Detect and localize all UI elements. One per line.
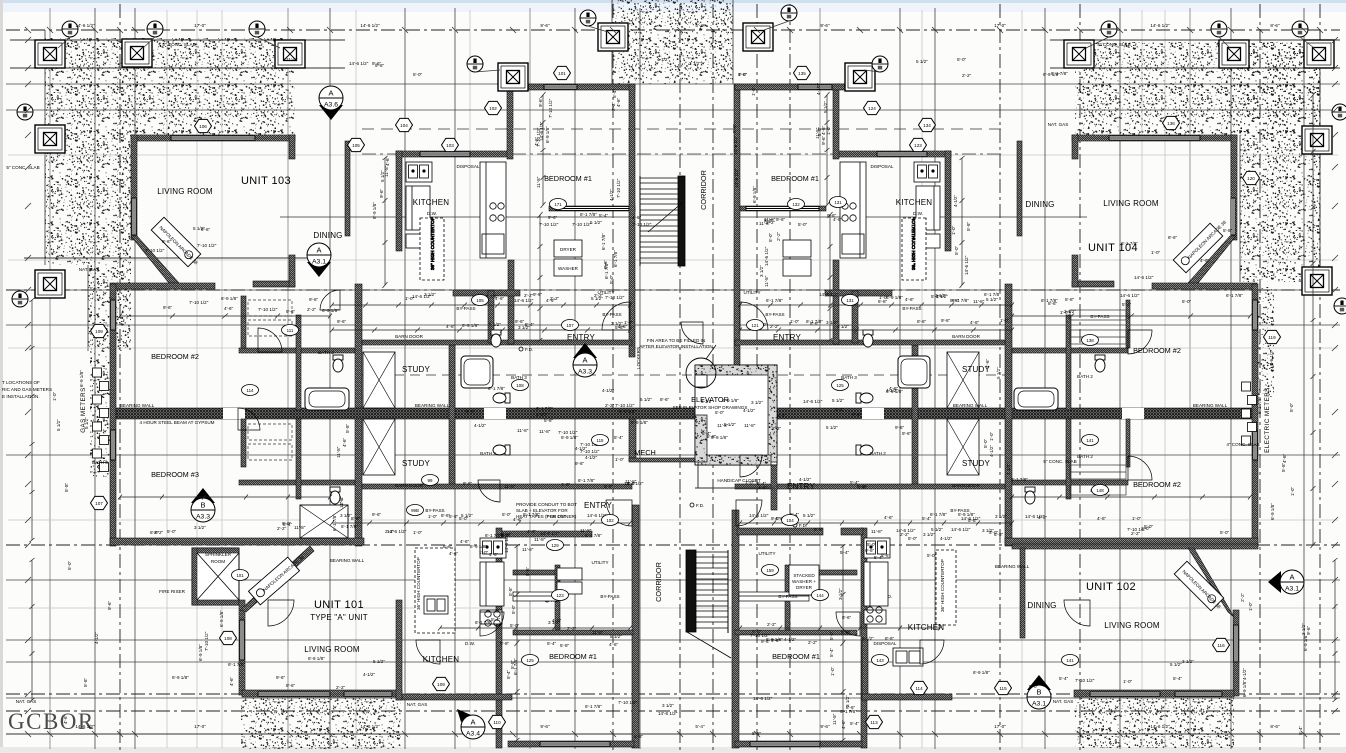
svg-text:9'-6": 9'-6" (771, 638, 781, 643)
corridor east wall lower (732, 510, 739, 748)
unit104 left wall lower (1072, 255, 1078, 287)
shower left-wing bath3 (300, 505, 348, 538)
svg-text:14'-6 1/2": 14'-6 1/2" (349, 61, 369, 66)
cr study row bottom partition (735, 484, 1005, 489)
bcr east wall (861, 528, 867, 748)
section marker A/A3.6 (319, 86, 343, 120)
svg-text:5'-0": 5'-0" (954, 245, 959, 255)
svg-text:4-1/2": 4-1/2" (474, 423, 486, 428)
svg-text:148: 148 (1096, 488, 1104, 493)
svg-text:5'-4": 5'-4" (922, 516, 932, 521)
svg-text:4'-6": 4'-6" (224, 306, 234, 311)
svg-text:5'-4": 5'-4" (757, 481, 767, 486)
cl entry wall (453, 290, 520, 296)
bcl utility side wall (555, 565, 560, 630)
svg-text:5'-0": 5'-0" (768, 232, 773, 242)
svg-text:3 1/2": 3 1/2" (424, 292, 436, 297)
svg-text:4'-6": 4'-6" (513, 517, 523, 522)
bcl bedroom top partition (513, 630, 633, 635)
svg-text:9'-6": 9'-6" (1306, 625, 1311, 635)
svg-text:14'-6 1/2": 14'-6 1/2" (1150, 724, 1170, 729)
svg-text:101: 101 (558, 71, 566, 76)
svg-text:17'-0": 17'-0" (994, 724, 1006, 729)
svg-text:2'-2": 2'-2" (154, 530, 164, 535)
svg-text:14'-6 1/2": 14'-6 1/2" (658, 711, 678, 716)
svg-text:5" CONC. SLAB: 5" CONC. SLAB (6, 165, 39, 170)
svg-text:9'-6": 9'-6" (309, 297, 319, 302)
svg-text:5'-0": 5'-0" (957, 57, 967, 62)
svg-text:8'-6": 8'-6" (917, 319, 927, 324)
svg-text:UTILITY: UTILITY (743, 290, 760, 295)
svg-text:BEARING WALL: BEARING WALL (120, 403, 155, 408)
right wing window b3 (1253, 430, 1257, 460)
cl kitchen window (420, 152, 470, 156)
svg-text:6'-9 1/8": 6'-9 1/8" (462, 323, 479, 328)
svg-text:4'-6": 4'-6" (884, 515, 894, 520)
svg-text:F.D.: F.D. (799, 523, 807, 528)
stipple region borders (45, 0, 1320, 351)
cl utility closet wall (488, 291, 494, 343)
svg-text:4-1/2": 4-1/2" (363, 672, 375, 677)
svg-text:5'-8": 5'-8" (510, 659, 515, 669)
svg-text:WASHER +: WASHER + (792, 579, 816, 584)
svg-text:11'-8": 11'-8" (871, 529, 883, 534)
unit103 right wall lower (289, 255, 295, 287)
svg-text:14'-6 1/2": 14'-6 1/2" (1269, 349, 1274, 369)
svg-text:2'-2": 2'-2" (336, 685, 346, 690)
svg-text:9'-6": 9'-6" (950, 298, 960, 303)
svg-text:11'-8": 11'-8" (294, 525, 306, 530)
svg-text:TYPE "A" UNIT: TYPE "A" UNIT (310, 613, 368, 622)
svg-text:5 1/2": 5 1/2" (803, 513, 815, 518)
svg-text:1'-0": 1'-0" (1132, 516, 1142, 521)
svg-text:14'-6 1/2": 14'-6 1/2" (734, 168, 739, 188)
elevator shaft left wall lower (695, 415, 707, 462)
svg-text:103: 103 (446, 143, 454, 148)
unit101 west window (240, 620, 244, 660)
unit102 top wall (1012, 544, 1258, 549)
concrete slab stipple regions (45, 38, 295, 135)
svg-text:4'-6": 4'-6" (449, 551, 459, 556)
svg-text:6'-1 7/8": 6'-1 7/8" (585, 533, 602, 538)
svg-text:1'-0": 1'-0" (615, 457, 625, 462)
svg-text:8'-6": 8'-6" (1168, 235, 1178, 240)
svg-text:7'-10 1/2": 7'-10 1/2" (539, 222, 559, 227)
svg-text:14'-6 1/2": 14'-6 1/2" (504, 533, 509, 553)
svg-text:6'-1 7/8": 6'-1 7/8" (475, 620, 492, 625)
svg-text:UNIT 103: UNIT 103 (241, 175, 291, 187)
svg-text:3 1/2": 3 1/2" (548, 620, 560, 625)
svg-text:1'-0": 1'-0" (561, 482, 571, 487)
kitchen unit102 (bottom-right) (864, 538, 890, 624)
svg-text:11'-8": 11'-8" (973, 299, 985, 304)
elevator callout circle (686, 358, 716, 388)
section marker B/A3.3 (191, 488, 215, 522)
svg-text:36" HIGH COUNTERTOP: 36" HIGH COUNTERTOP (416, 557, 421, 610)
corridor west wall lower (632, 505, 639, 748)
bcl west wall (496, 528, 502, 748)
unit103 top window (171, 136, 255, 140)
svg-text:2'-2": 2'-2" (550, 296, 560, 301)
svg-text:132: 132 (792, 202, 800, 207)
svg-text:DRYER: DRYER (560, 247, 577, 252)
svg-text:AFTER ELEVATOR INSTALLATION: AFTER ELEVATOR INSTALLATION (639, 344, 712, 349)
svg-text:9'-6": 9'-6" (820, 23, 830, 28)
kitchen unit cl (top-left-center) (406, 162, 506, 280)
svg-text:108: 108 (516, 383, 524, 388)
svg-text:1'-0": 1'-0" (1060, 310, 1070, 315)
svg-text:5'-0": 5'-0" (1182, 299, 1192, 304)
unit102 bottom wall (1074, 690, 1234, 697)
svg-text:11'-8": 11'-8" (539, 429, 551, 434)
svg-text:BY-PASS: BY-PASS (1090, 314, 1109, 319)
svg-text:14'-6 1/2": 14'-6 1/2" (1025, 514, 1045, 519)
svg-text:D.W.: D.W. (465, 641, 475, 646)
svg-text:NAT. GAS: NAT. GAS (1053, 699, 1074, 704)
unit104 right wall (1231, 135, 1237, 240)
svg-text:7'-10 1/2": 7'-10 1/2" (558, 430, 578, 435)
svg-text:NAT. GAS: NAT. GAS (1048, 122, 1069, 127)
svg-text:4'-6": 4'-6" (527, 529, 537, 534)
svg-text:1'-0": 1'-0" (1000, 318, 1010, 323)
svg-text:5'-8": 5'-8" (634, 734, 644, 739)
corridor east wall upper (734, 84, 740, 365)
svg-text:BEARING WALL: BEARING WALL (995, 564, 1030, 569)
svg-text:2'-2": 2'-2" (611, 101, 616, 111)
dining east partition (345, 141, 350, 236)
svg-text:4-1/2": 4-1/2" (953, 195, 958, 207)
svg-text:5'-4": 5'-4" (614, 435, 624, 440)
svg-text:14'-6 1/2": 14'-6 1/2" (387, 529, 407, 534)
svg-text:2'-2": 2'-2" (339, 495, 344, 505)
closet X left-center lower (363, 419, 395, 475)
svg-text:STUDY: STUDY (962, 459, 991, 468)
svg-text:9'-6": 9'-6" (852, 412, 862, 417)
bcl kitchen bottom wall (396, 694, 512, 700)
svg-text:SPRINKLER: SPRINKLER (205, 552, 232, 557)
svg-text:171: 171 (554, 202, 562, 207)
svg-text:A: A (316, 246, 321, 255)
svg-text:5 1/2": 5 1/2" (701, 399, 713, 404)
bathtub right wing (1014, 388, 1058, 410)
svg-text:11'-8": 11'-8" (517, 428, 529, 433)
svg-text:121: 121 (751, 323, 759, 328)
washer/dryer top-right-center (783, 240, 811, 276)
unit101 bottom window2 (344, 692, 392, 696)
bcr bedroom top partition (735, 630, 857, 635)
svg-text:8'-6": 8'-6" (525, 566, 530, 576)
svg-text:LIVING ROOM: LIVING ROOM (1103, 199, 1159, 208)
svg-text:SEE ELEVATOR SHOP DRAWINGS: SEE ELEVATOR SHOP DRAWINGS (673, 405, 748, 410)
svg-text:5'-0": 5'-0" (798, 222, 808, 227)
unit102 bottom window1 (1090, 692, 1160, 696)
unit102 bottom window2 (1175, 692, 1222, 696)
svg-text:BEARING WALL: BEARING WALL (953, 403, 988, 408)
bottom gray strip (0, 747, 1346, 753)
svg-text:143: 143 (876, 658, 884, 663)
bath2 west partition upper (296, 315, 301, 410)
svg-text:14'-6 1/2": 14'-6 1/2" (764, 246, 769, 266)
svg-text:14'-6 1/2": 14'-6 1/2" (514, 298, 534, 303)
svg-text:8'-6": 8'-6" (842, 615, 852, 620)
svg-text:DISPOSAL: DISPOSAL (874, 641, 897, 646)
svg-text:CORRIDOR: CORRIDOR (654, 562, 663, 602)
svg-text:BY-PASS: BY-PASS (902, 306, 921, 311)
shelf rod closet bcl (513, 592, 558, 601)
svg-text:2'-2": 2'-2" (1131, 531, 1141, 536)
svg-text:3 1/2": 3 1/2" (194, 525, 206, 530)
closet X left-center (363, 352, 395, 408)
elevator shaft top wall (695, 365, 777, 375)
cr entry wall (825, 290, 892, 296)
svg-text:11'-8": 11'-8" (536, 176, 541, 188)
svg-text:5'-8": 5'-8" (604, 484, 614, 489)
svg-text:LIVING ROOM: LIVING ROOM (157, 187, 213, 196)
svg-text:141: 141 (1086, 438, 1094, 443)
svg-text:9'-6": 9'-6" (941, 318, 951, 323)
napoleon arcade unit102 (1174, 561, 1227, 614)
svg-text:9'-6": 9'-6" (515, 319, 525, 324)
upper stair (640, 176, 685, 266)
svg-text:6'-9 1/8": 6'-9 1/8" (219, 610, 224, 627)
svg-text:5'-0": 5'-0" (502, 512, 512, 517)
svg-text:131: 131 (846, 298, 854, 303)
svg-text:17'-0": 17'-0" (194, 724, 206, 729)
svg-text:7'-10 1/2": 7'-10 1/2" (197, 243, 217, 248)
svg-text:3 1/2": 3 1/2" (826, 320, 838, 325)
svg-text:1'-0": 1'-0" (858, 485, 868, 490)
svg-text:ENTRY: ENTRY (567, 333, 595, 342)
svg-text:A3.3: A3.3 (578, 369, 592, 376)
cr step wall (833, 84, 839, 159)
svg-text:DRYER: DRYER (796, 585, 813, 590)
svg-text:5'-8": 5'-8" (968, 518, 978, 523)
svg-text:3 1/2": 3 1/2" (518, 325, 530, 330)
svg-text:5'-8": 5'-8" (83, 677, 88, 687)
svg-text:STUDY: STUDY (402, 365, 431, 374)
svg-text:6'-1 7/8": 6'-1 7/8" (578, 478, 595, 483)
svg-text:5 1/2": 5 1/2" (489, 322, 501, 327)
svg-text:ENTRY: ENTRY (773, 333, 801, 342)
svg-text:4'-6": 4'-6" (385, 156, 390, 166)
cl step wall (507, 84, 513, 159)
svg-text:4'-6": 4'-6" (905, 297, 915, 302)
svg-text:14'-6 1/2": 14'-6 1/2" (540, 531, 560, 536)
svg-text:14'-6 1/2": 14'-6 1/2" (749, 513, 769, 518)
svg-text:WASHER: WASHER (558, 266, 579, 271)
unit104 right window (1231, 198, 1235, 235)
oval door tags (562, 320, 579, 331)
svg-text:5 1/2": 5 1/2" (823, 101, 828, 113)
svg-text:8'-6": 8'-6" (1270, 23, 1280, 28)
svg-text:144: 144 (816, 593, 824, 598)
svg-text:9'-6": 9'-6" (603, 259, 608, 269)
svg-text:1'-0": 1'-0" (1151, 250, 1161, 255)
svg-text:5 1/2": 5 1/2" (916, 59, 928, 64)
svg-text:6'-1 7/8": 6'-1 7/8" (1041, 298, 1058, 303)
svg-text:5'-0": 5'-0" (413, 72, 423, 77)
svg-text:F.D.: F.D. (696, 503, 704, 508)
svg-text:FIN AREA TO BE FILLED IN: FIN AREA TO BE FILLED IN (647, 338, 705, 343)
bcl kitchen west wall (396, 600, 402, 700)
wardrobe closets left wing (248, 300, 292, 460)
svg-text:3 1/2": 3 1/2" (340, 513, 352, 518)
unit102 range circles (867, 607, 882, 622)
svg-text:9'-6": 9'-6" (372, 61, 382, 66)
left wing east bearing wall (355, 284, 362, 546)
svg-text:5'-4": 5'-4" (777, 413, 787, 418)
svg-text:8'-6": 8'-6" (885, 636, 895, 641)
svg-text:3 1/2": 3 1/2" (611, 321, 623, 326)
r-bedroom2 west wall upper (1126, 300, 1130, 348)
svg-text:11'-8": 11'-8" (832, 713, 837, 725)
unit102 diagonal arcade wall (1188, 548, 1234, 617)
svg-text:36" HIGH COUNTERTOP: 36" HIGH COUNTERTOP (940, 559, 945, 612)
cr bypass doors (746, 207, 819, 211)
svg-text:BEDROOM #1: BEDROOM #1 (549, 652, 597, 661)
elevator fill-in notch (695, 375, 707, 387)
right wing west bearing wall (1005, 284, 1012, 546)
svg-text:5 1/2": 5 1/2" (640, 397, 652, 402)
svg-text:5'-0": 5'-0" (927, 553, 937, 558)
svg-text:6'-1 7/8": 6'-1 7/8" (806, 319, 823, 324)
door swing arcs (238, 290, 1152, 664)
svg-text:14'-6 1/2": 14'-6 1/2" (1150, 23, 1170, 28)
left wing window b3 (111, 430, 115, 460)
svg-text:3 1/2": 3 1/2" (1182, 659, 1194, 664)
svg-text:114: 114 (915, 686, 923, 691)
section marker B/A3.1 (1027, 675, 1051, 709)
svg-text:6'-9 1/8": 6'-9 1/8" (886, 295, 903, 300)
svg-text:4-1/2": 4-1/2" (799, 477, 811, 482)
svg-text:7'-10 1/2": 7'-10 1/2" (605, 295, 625, 300)
svg-text:BARN DOOR: BARN DOOR (952, 483, 981, 488)
unit102 kitchen island (936, 550, 956, 625)
svg-text:5'-0": 5'-0" (510, 623, 520, 628)
svg-text:5'-0": 5'-0" (867, 542, 877, 547)
svg-text:123: 123 (914, 143, 922, 148)
handicap closet (695, 465, 775, 488)
svg-text:9'-6": 9'-6" (902, 431, 912, 436)
svg-text:BATH 2: BATH 2 (1077, 454, 1093, 459)
svg-text:11'-8": 11'-8" (744, 423, 756, 428)
svg-text:14'-6 1/2": 14'-6 1/2" (75, 724, 95, 729)
svg-text:9'-6": 9'-6" (895, 425, 905, 430)
svg-text:7'-10 1/2": 7'-10 1/2" (615, 403, 635, 408)
svg-text:8'-6": 8'-6" (660, 397, 670, 402)
svg-text:6'-9 1/8": 6'-9 1/8" (545, 126, 550, 143)
svg-text:A3.4: A3.4 (466, 731, 480, 738)
closet X right-center lower (947, 419, 979, 475)
unit103 top wall (131, 135, 295, 141)
corridor west wall upper (629, 84, 635, 357)
washer/dryer top-left-center (554, 240, 582, 276)
electric meters (1242, 382, 1257, 445)
svg-text:115: 115 (597, 438, 605, 443)
svg-text:8'-6": 8'-6" (846, 705, 856, 710)
svg-text:NAT. GAS: NAT. GAS (16, 699, 37, 704)
svg-text:4 HOUR STEEL BEAM AT GYPSUM: 4 HOUR STEEL BEAM AT GYPSUM (140, 420, 215, 425)
svg-text:CORRIDOR: CORRIDOR (699, 170, 708, 210)
svg-text:A: A (582, 356, 587, 365)
svg-text:116: 116 (1217, 643, 1225, 648)
svg-text:1'-0": 1'-0" (1248, 601, 1253, 611)
svg-text:1'-0": 1'-0" (1123, 679, 1133, 684)
svg-text:5 1/2": 5 1/2" (380, 170, 385, 182)
svg-text:2'-2": 2'-2" (772, 426, 782, 431)
svg-text:119: 119 (1268, 335, 1276, 340)
svg-text:BY-PASS: BY-PASS (602, 312, 621, 317)
elevator shaft (695, 365, 777, 465)
svg-text:4-1/2": 4-1/2" (816, 83, 821, 95)
sprinkler west wall (192, 548, 197, 605)
svg-text:6'-9 1/8": 6'-9 1/8" (1242, 680, 1247, 697)
svg-text:4-1/2": 4-1/2" (657, 57, 669, 62)
svg-text:UTILITY: UTILITY (591, 560, 608, 565)
svg-text:4'-6": 4'-6" (534, 136, 539, 146)
bedroom2 south partition (239, 348, 355, 353)
svg-text:8'-6": 8'-6" (162, 239, 172, 244)
svg-text:124: 124 (868, 106, 876, 111)
svg-text:14'-6 1/2": 14'-6 1/2" (803, 399, 823, 404)
svg-text:1'-0": 1'-0" (1290, 486, 1295, 496)
svg-text:123: 123 (556, 593, 564, 598)
svg-text:5 1/2": 5 1/2" (862, 636, 874, 641)
svg-text:4-1/2": 4-1/2" (989, 445, 994, 457)
svg-text:5'-0": 5'-0" (908, 536, 918, 541)
svg-text:36" HIGH COUNTERTOP: 36" HIGH COUNTERTOP (911, 217, 916, 270)
dimension rows (330, 303, 632, 308)
svg-text:9'-6": 9'-6" (738, 72, 748, 77)
svg-text:3 1/2": 3 1/2" (759, 265, 764, 277)
svg-text:4-1/2": 4-1/2" (575, 446, 587, 451)
svg-text:114: 114 (247, 388, 255, 393)
svg-text:4'-6": 4'-6" (889, 386, 899, 391)
svg-text:6'-9 1/8": 6'-9 1/8" (221, 296, 238, 301)
svg-text:4'-6": 4'-6" (229, 676, 234, 686)
section marker A/A3.1 right (1268, 570, 1304, 594)
svg-text:1'-0": 1'-0" (826, 125, 831, 135)
svg-text:KITCHEN: KITCHEN (413, 198, 450, 207)
svg-text:3 1/2": 3 1/2" (662, 703, 674, 708)
r-bath west partition lower (1066, 419, 1071, 499)
bcl utility partition (513, 570, 573, 575)
svg-text:7'-10 1/2": 7'-10 1/2" (548, 98, 553, 118)
svg-text:BATH 3: BATH 3 (92, 460, 108, 465)
svg-text:5" CONC. SLAB: 5" CONC. SLAB (1043, 459, 1076, 464)
svg-text:KITCHEN: KITCHEN (896, 198, 933, 207)
svg-text:A3.3: A3.3 (196, 514, 210, 521)
svg-text:5 1/2": 5 1/2" (986, 297, 998, 302)
svg-text:A3.1: A3.1 (312, 259, 326, 266)
svg-text:6'-9 1/8": 6'-9 1/8" (722, 398, 739, 403)
svg-text:5" CONC. SLAB: 5" CONC. SLAB (162, 42, 195, 47)
svg-text:5'-8": 5'-8" (449, 514, 459, 519)
svg-text:BEDROOM #1: BEDROOM #1 (544, 174, 592, 183)
svg-text:107: 107 (566, 323, 574, 328)
svg-text:134: 134 (923, 123, 931, 128)
svg-text:14'-6 1/2": 14'-6 1/2" (360, 23, 380, 28)
svg-text:5 1/2": 5 1/2" (1170, 662, 1182, 667)
svg-text:6'-9 1/8": 6'-9 1/8" (470, 544, 487, 549)
svg-text:8'-6": 8'-6" (286, 683, 296, 688)
svg-text:111: 111 (287, 328, 294, 333)
svg-text:4-1/2": 4-1/2" (94, 632, 99, 644)
svg-text:BY-PASS: BY-PASS (765, 312, 784, 317)
cl unit top window (544, 85, 577, 89)
svg-text:6'-1 7/8": 6'-1 7/8" (332, 514, 337, 531)
svg-text:5'-0": 5'-0" (829, 630, 834, 640)
